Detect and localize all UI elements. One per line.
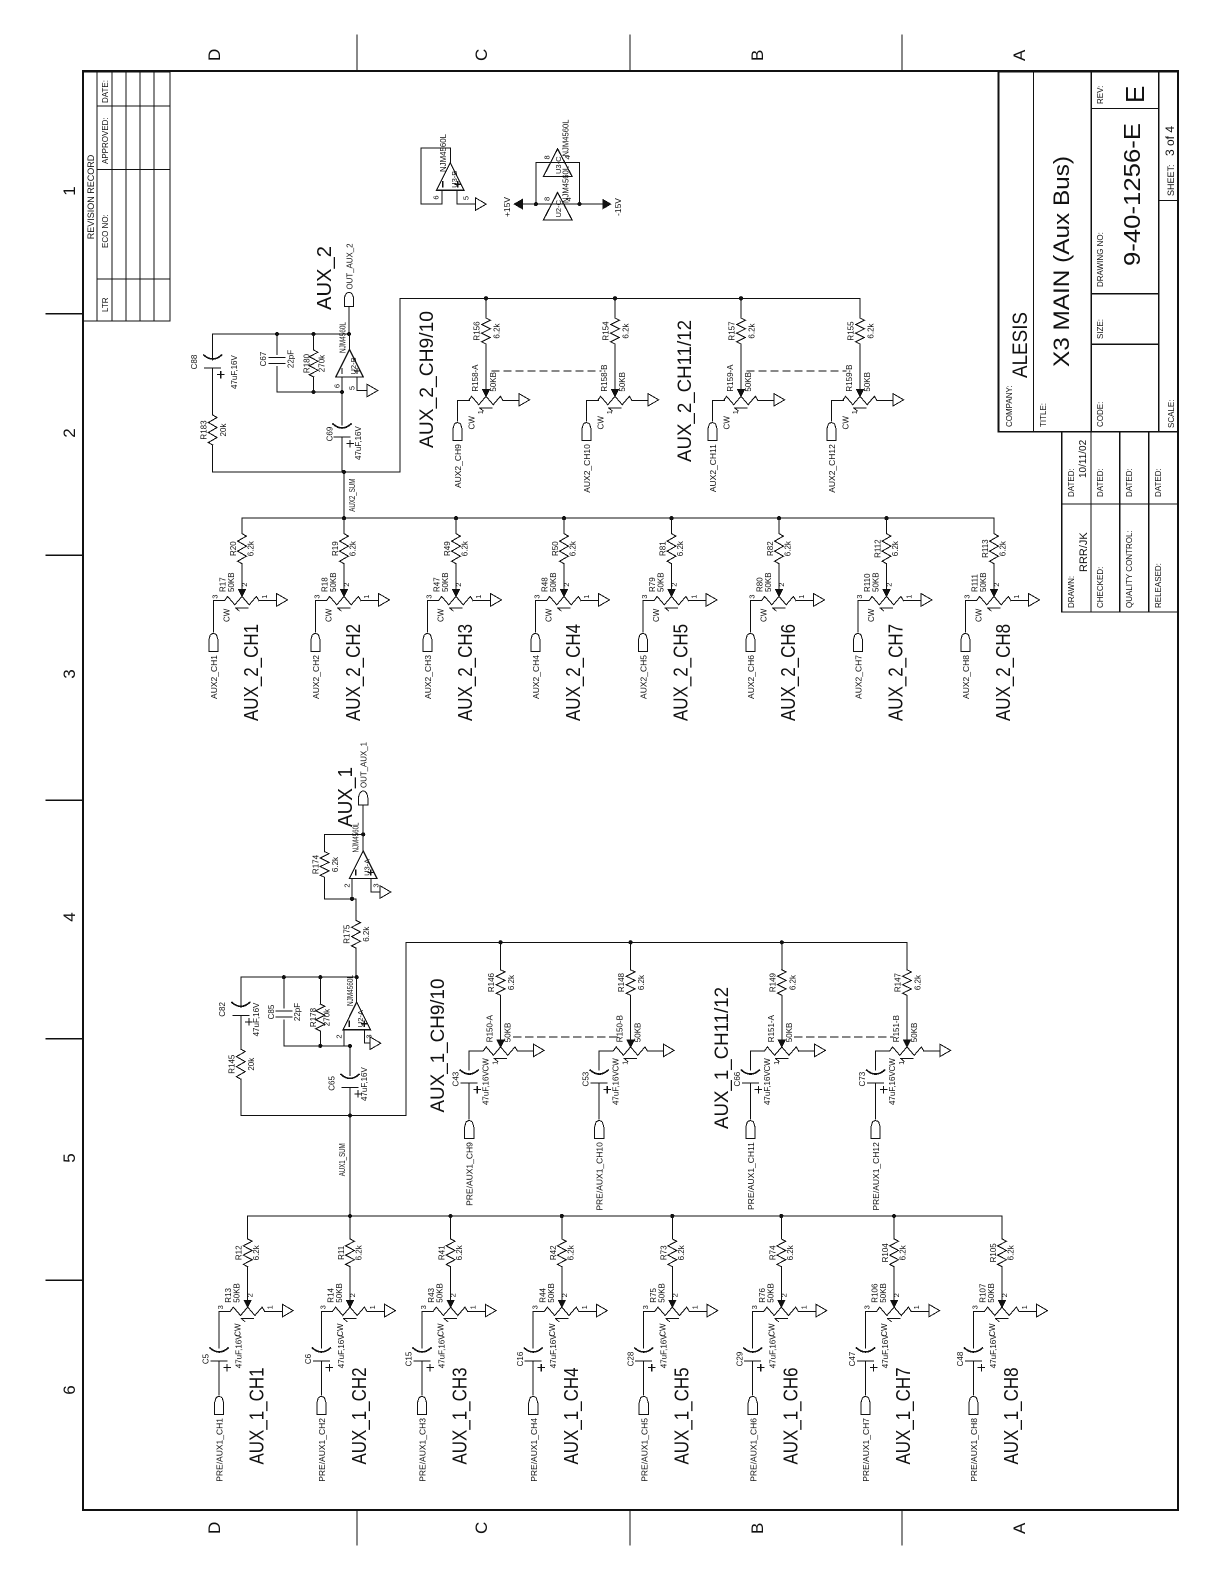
svg-text:50KB: 50KB: [764, 572, 773, 592]
svg-text:R104: R104: [881, 1243, 890, 1263]
svg-text:1: 1: [491, 1061, 500, 1065]
svg-text:3: 3: [216, 1305, 225, 1309]
svg-text:1: 1: [60, 186, 79, 195]
svg-text:PRE/AUX1_CH8: PRE/AUX1_CH8: [969, 1418, 979, 1482]
ground: [814, 594, 825, 607]
svg-text:2: 2: [777, 583, 786, 587]
svg-text:C73: C73: [858, 1071, 867, 1086]
svg-text:AUX_2_CH2: AUX_2_CH2: [343, 624, 365, 721]
wire R13 wiper: [244, 1267, 251, 1308]
ground: [367, 384, 378, 397]
ground: [893, 394, 904, 407]
svg-text:REVISION RECORD: REVISION RECORD: [86, 154, 96, 239]
potentiometer R159-A: [721, 396, 758, 411]
potentiometer R150-B: [611, 1047, 648, 1062]
junction: [347, 332, 351, 336]
wire R158-A wiper: [483, 344, 490, 396]
svg-text:C82: C82: [218, 1002, 227, 1017]
svg-text:50KB: 50KB: [910, 1023, 919, 1043]
svg-text:DATE:: DATE:: [101, 80, 110, 103]
wire pot pin1 to ground: [1011, 600, 1029, 602]
svg-text:R159-B: R159-B: [845, 364, 854, 391]
svg-text:6.2k: 6.2k: [891, 540, 900, 556]
svg-text:PRE/AUX1_CH4: PRE/AUX1_CH4: [529, 1418, 539, 1482]
svg-text:6.2k: 6.2k: [507, 974, 516, 990]
svg-text:2: 2: [885, 583, 894, 587]
wire pot pin3 to terminal: [832, 401, 844, 421]
svg-text:47uF,16V: 47uF,16V: [768, 1334, 777, 1368]
svg-text:DATED:: DATED:: [1125, 468, 1134, 497]
svg-text:AUX_2_CH9/10: AUX_2_CH9/10: [417, 311, 438, 448]
svg-text:1: 1: [605, 410, 614, 414]
junction: [613, 296, 617, 300]
svg-text:R174: R174: [312, 854, 321, 874]
gang dashed link R150: [514, 1036, 617, 1038]
polarity +: [870, 1364, 876, 1370]
svg-text:NJM4560L: NJM4560L: [345, 975, 355, 1006]
wire pot pin3 to C28: [644, 1311, 653, 1348]
resistor R175: [355, 948, 357, 977]
wire output: [356, 977, 358, 1002]
svg-text:50KB: 50KB: [657, 1283, 666, 1303]
capacitor C29: [744, 1348, 762, 1361]
potentiometer R48: [544, 596, 581, 611]
svg-text:C29: C29: [735, 1351, 744, 1366]
junction: [560, 1214, 564, 1218]
svg-text:50KB: 50KB: [329, 572, 338, 592]
junction: [534, 202, 538, 206]
wire pot pin1 to ground: [265, 1310, 283, 1312]
wire feed to R154: [614, 298, 616, 318]
svg-text:10/11/02: 10/11/02: [1078, 439, 1089, 478]
svg-text:SIZE:: SIZE:: [1096, 319, 1105, 339]
wire pot pin3 to terminal: [965, 601, 974, 632]
svg-text:6.2k: 6.2k: [748, 322, 757, 338]
wire PRE/AUX1_CH2 R to bus: [349, 1216, 351, 1239]
wire pot pin1 to ground: [361, 600, 379, 602]
svg-text:47uF,16V: 47uF,16V: [360, 1067, 369, 1101]
svg-text:C85: C85: [267, 1004, 276, 1019]
resistor R41: [446, 1239, 455, 1267]
polarity +: [326, 1364, 332, 1370]
svg-text:50KB: 50KB: [657, 572, 666, 592]
svg-text:R105: R105: [989, 1243, 998, 1263]
ground: [533, 1044, 544, 1057]
svg-text:47uF,16V: 47uF,16V: [659, 1334, 668, 1368]
svg-text:AUX2_CH6: AUX2_CH6: [746, 655, 756, 699]
resistor R50: [560, 534, 569, 564]
svg-text:47uF,16V: 47uF,16V: [989, 1334, 998, 1368]
svg-text:C48: C48: [956, 1351, 965, 1366]
wire R159-B wiper: [857, 344, 864, 396]
svg-text:20k: 20k: [219, 423, 228, 437]
capacitor C5: [210, 1348, 228, 1361]
svg-text:D: D: [205, 49, 224, 61]
terminal PRE/AUX1_CH5: [639, 1397, 648, 1415]
terminal PRE/AUX1_CH4: [529, 1397, 538, 1415]
svg-text:AUX2_CH2: AUX2_CH2: [311, 655, 321, 699]
wire R47 wiper: [453, 564, 460, 597]
svg-text:1: 1: [621, 1061, 630, 1065]
wire pot pin3 to terminal: [750, 601, 759, 632]
ground: [491, 594, 502, 607]
svg-text:2: 2: [246, 1293, 255, 1297]
wire PRE/AUX1_CH5 R to bus: [671, 1216, 673, 1239]
svg-text:1: 1: [799, 1305, 808, 1309]
svg-text:5: 5: [348, 386, 357, 390]
svg-text:AUX_2_CH11/12: AUX_2_CH11/12: [675, 320, 696, 462]
svg-text:C69: C69: [326, 426, 335, 441]
wire PRE/AUX1_CH6 R to bus: [780, 1216, 782, 1239]
wire pot pin1 to ground: [579, 1310, 597, 1312]
svg-text:AUX_1_CH11/12: AUX_1_CH11/12: [712, 987, 733, 1129]
svg-text:2: 2: [449, 1293, 458, 1297]
wire R110 wiper: [883, 564, 890, 597]
svg-text:CODE:: CODE:: [1096, 402, 1105, 427]
svg-text:47uF,16V: 47uF,16V: [549, 1334, 558, 1368]
polarity +: [474, 1086, 480, 1092]
wire output to terminal: [348, 306, 350, 334]
net AUX1 bus: [248, 1215, 1002, 1217]
wire pot pin3 to terminal: [213, 601, 222, 632]
svg-text:3: 3: [533, 595, 542, 599]
wire AUX2_CH8 R to bus: [993, 518, 995, 533]
wire pot pin1 to ground: [924, 1050, 940, 1052]
ground: [1029, 594, 1040, 607]
svg-text:C15: C15: [405, 1351, 414, 1366]
wire pot pin1 to ground: [367, 1310, 385, 1312]
svg-text:CW: CW: [612, 1058, 621, 1072]
net AUX1_SUM: [349, 1116, 351, 1217]
wire C6 to terminal: [320, 1361, 322, 1395]
wire feed to R148: [630, 942, 632, 970]
capacitor C73: [867, 1070, 885, 1083]
capacitor C65: [349, 1046, 351, 1076]
svg-text:RRR/JK: RRR/JK: [1078, 532, 1090, 572]
svg-text:6.2k: 6.2k: [788, 974, 797, 990]
svg-text:2: 2: [454, 583, 463, 587]
capacitor C28: [635, 1348, 653, 1361]
svg-text:R50: R50: [551, 541, 560, 556]
svg-text:6.2k: 6.2k: [786, 1244, 795, 1260]
terminal PRE/AUX1_CH11: [746, 1121, 755, 1139]
terminal PRE/AUX1_CH8: [969, 1397, 978, 1415]
resistor R148: [626, 970, 635, 996]
resistor R154: [611, 318, 620, 344]
potentiometer R47: [436, 596, 473, 611]
svg-text:CW: CW: [652, 608, 661, 622]
svg-text:3: 3: [530, 1305, 539, 1309]
wire pin3 to ground: [371, 878, 380, 892]
wire C29 to terminal: [752, 1361, 754, 1395]
svg-text:47uF,16V: 47uF,16V: [235, 1334, 244, 1368]
ground: [475, 198, 486, 211]
svg-text:50KB: 50KB: [979, 572, 988, 592]
svg-text:NJM4560L: NJM4560L: [561, 119, 571, 156]
ground: [519, 394, 530, 407]
svg-text:1: 1: [362, 595, 371, 599]
svg-text:2: 2: [779, 1293, 788, 1297]
resistor R42: [557, 1239, 566, 1267]
svg-text:6.2k: 6.2k: [867, 322, 876, 338]
capacitor C88: [204, 355, 222, 368]
junction: [282, 975, 286, 979]
power +15V: [514, 199, 522, 208]
svg-text:PRE/AUX1_CH7: PRE/AUX1_CH7: [861, 1418, 871, 1482]
wire pot pin1 to ground: [503, 400, 519, 402]
svg-text:3: 3: [640, 595, 649, 599]
svg-text:R154: R154: [602, 321, 611, 341]
wire AUX2_CH1 R to bus: [241, 518, 243, 533]
terminal AUX2_CH7: [853, 634, 862, 652]
svg-text:CW: CW: [888, 1058, 897, 1072]
svg-text:NJM4560L: NJM4560L: [338, 322, 348, 353]
potentiometer R13: [228, 1307, 265, 1322]
svg-text:AUX2_CH4: AUX2_CH4: [531, 655, 541, 699]
svg-text:3: 3: [750, 1305, 759, 1309]
capacitor C15: [413, 1348, 431, 1361]
svg-text:6.2k: 6.2k: [349, 540, 358, 556]
svg-text:C: C: [472, 1522, 491, 1534]
wire output: [349, 334, 351, 350]
wire +15V/-15V rail: [522, 203, 604, 205]
resistor R104: [890, 1239, 899, 1267]
svg-text:1: 1: [1020, 1305, 1029, 1309]
svg-text:CW: CW: [437, 608, 446, 622]
net AUX2 pre-feed: [400, 297, 860, 299]
wire pot pin1 to ground: [877, 400, 893, 402]
svg-text:C88: C88: [190, 354, 199, 369]
wire PRE/AUX1_CH1 R to bus: [247, 1216, 249, 1239]
svg-text:AUX_1_CH8: AUX_1_CH8: [1001, 1368, 1023, 1465]
wire power top link: [535, 163, 537, 204]
potentiometer R75: [652, 1307, 689, 1322]
wire to CH9-12 feed: [405, 942, 407, 1115]
svg-text:CHECKED:: CHECKED:: [1096, 567, 1105, 608]
wire C73 to terminal: [875, 1083, 877, 1119]
resistor R49: [452, 534, 461, 564]
svg-text:LTR: LTR: [101, 297, 110, 312]
ground: [929, 1304, 940, 1317]
svg-text:4: 4: [563, 155, 572, 159]
svg-text:AUX2_SUM: AUX2_SUM: [347, 479, 357, 512]
svg-text:6.2k: 6.2k: [252, 1244, 261, 1260]
wire C43 to terminal: [468, 1083, 470, 1119]
wire feed to R146: [500, 942, 502, 970]
ground: [380, 886, 391, 899]
wire R44 wiper: [558, 1267, 565, 1308]
capacitor C43: [460, 1070, 478, 1083]
svg-text:AUX_2_CH5: AUX_2_CH5: [671, 624, 693, 721]
potentiometer R76: [761, 1307, 798, 1322]
op-amp U3-A: [349, 851, 377, 879]
terminal OUT_AUX_2: [344, 292, 353, 306]
net AUX2 bus: [242, 517, 994, 519]
svg-text:CW: CW: [482, 1058, 491, 1072]
svg-text:6.2k: 6.2k: [1007, 1244, 1016, 1260]
svg-text:50KB: 50KB: [987, 1283, 996, 1303]
svg-text:6.2k: 6.2k: [362, 926, 371, 942]
svg-text:50KB: 50KB: [872, 572, 881, 592]
svg-text:1: 1: [476, 410, 485, 414]
wire pin3 to ground: [365, 1030, 371, 1044]
svg-text:1: 1: [474, 595, 483, 599]
wire PRE/AUX1_CH3 R to bus: [450, 1216, 452, 1239]
potentiometer R111: [974, 596, 1011, 611]
svg-text:2: 2: [335, 1034, 344, 1038]
svg-text:50KB: 50KB: [634, 1023, 643, 1043]
resistor R157: [737, 318, 746, 344]
wire feed to R147: [906, 942, 908, 970]
svg-text:SHEET:: SHEET:: [1166, 164, 1176, 196]
wire pot pin3 to C53: [599, 1051, 610, 1070]
wire C15 to terminal: [421, 1361, 423, 1395]
svg-text:X3 MAIN (Aux Bus): X3 MAIN (Aux Bus): [1049, 156, 1074, 367]
svg-text:R112: R112: [874, 539, 883, 558]
svg-text:2: 2: [562, 583, 571, 587]
svg-text:3: 3: [372, 883, 381, 887]
wire AUX2_CH6 R to bus: [778, 518, 780, 533]
resistor R149: [777, 970, 786, 996]
resistor R19: [340, 534, 349, 564]
svg-text:CW: CW: [597, 416, 606, 430]
wire pot pin3 to C43: [469, 1051, 480, 1070]
svg-text:270k: 270k: [323, 1008, 332, 1026]
svg-text:50KB: 50KB: [441, 572, 450, 592]
resistor R183: [208, 415, 217, 445]
svg-text:R82: R82: [766, 541, 775, 556]
svg-text:1: 1: [690, 595, 699, 599]
op-amp U2-B: [336, 350, 364, 378]
ground: [485, 1304, 496, 1317]
wire pin5: [457, 190, 476, 204]
wire R48 wiper: [561, 564, 568, 597]
polarity +: [758, 1364, 764, 1370]
svg-text:1: 1: [897, 1061, 906, 1065]
terminal OUT_AUX_1: [359, 791, 368, 805]
wire R159-A wiper: [738, 344, 745, 396]
resistor R145: [236, 1049, 245, 1079]
svg-text:AUX_1_CH4: AUX_1_CH4: [561, 1368, 583, 1465]
potentiometer R159-B: [840, 396, 877, 411]
svg-text:C53: C53: [582, 1071, 591, 1086]
svg-text:PRE/AUX1_CH1: PRE/AUX1_CH1: [215, 1418, 225, 1482]
svg-text:1: 1: [582, 595, 591, 599]
svg-text:OUT_AUX_2: OUT_AUX_2: [345, 243, 355, 289]
wire pot pin3 to terminal: [643, 601, 652, 632]
polarity +: [755, 1086, 761, 1092]
junction: [454, 516, 458, 520]
polarity +: [649, 1364, 655, 1370]
ground: [597, 1304, 608, 1317]
svg-text:AUX2_CH5: AUX2_CH5: [639, 655, 649, 699]
svg-text:AUX_1_CH7: AUX_1_CH7: [893, 1368, 915, 1465]
resistor R11: [346, 1239, 355, 1267]
svg-text:PRE/AUX1_CH5: PRE/AUX1_CH5: [639, 1418, 649, 1482]
svg-text:3: 3: [963, 595, 972, 599]
ground: [707, 1304, 718, 1317]
svg-text:1: 1: [690, 1305, 699, 1309]
terminal AUX2_CH10: [582, 423, 591, 441]
svg-text:1: 1: [580, 1305, 589, 1309]
svg-text:R113: R113: [981, 539, 990, 558]
svg-text:50KB: 50KB: [744, 372, 753, 392]
wire pot pin1 to ground: [581, 600, 599, 602]
svg-text:PRE/AUX1_CH11: PRE/AUX1_CH11: [746, 1142, 756, 1210]
svg-text:3: 3: [425, 595, 434, 599]
capacitor C66: [741, 1070, 759, 1083]
svg-text:R146: R146: [487, 972, 496, 992]
wire R151-A wiper: [778, 995, 785, 1047]
svg-text:6.2k: 6.2k: [637, 974, 646, 990]
wire pot pin1 to ground: [689, 1310, 707, 1312]
wire PRE/AUX1_CH7 R to bus: [893, 1216, 895, 1239]
wire pot pin1 to ground: [468, 1310, 486, 1312]
op-amp U3-C power: [543, 149, 572, 177]
terminal AUX2_CH8: [961, 634, 970, 652]
svg-text:AUX2_CH11: AUX2_CH11: [708, 444, 718, 492]
wire pot pin1 to ground: [796, 600, 814, 602]
svg-text:1: 1: [850, 410, 859, 414]
svg-text:6.2k: 6.2k: [493, 322, 502, 338]
svg-text:6.2k: 6.2k: [677, 1244, 686, 1260]
svg-text:4: 4: [564, 197, 573, 201]
terminal PRE/AUX1_CH1: [215, 1397, 224, 1415]
svg-text:47uF,16V: 47uF,16V: [881, 1334, 890, 1368]
wire PRE/AUX1_CH8 R to bus: [1001, 1216, 1003, 1239]
terminal AUX2_CH5: [638, 634, 647, 652]
svg-text:B: B: [748, 1523, 767, 1534]
wire pot pin1 to ground: [798, 1310, 816, 1312]
svg-text:6.2k: 6.2k: [622, 322, 631, 338]
junction: [629, 940, 633, 944]
svg-text:2: 2: [670, 1293, 679, 1297]
junction: [779, 1214, 783, 1218]
svg-text:U3-A: U3-A: [363, 859, 372, 876]
junction: [348, 1214, 352, 1218]
svg-text:COMPANY:: COMPANY:: [1005, 385, 1014, 427]
junction: [780, 940, 784, 944]
capacitor C82: [232, 1002, 250, 1015]
potentiometer R17: [222, 596, 259, 611]
svg-text:AUX2_CH3: AUX2_CH3: [423, 655, 433, 699]
svg-text:3: 3: [971, 1305, 980, 1309]
svg-text:CW: CW: [760, 608, 769, 622]
junction: [892, 1214, 896, 1218]
svg-text:6.2k: 6.2k: [914, 974, 923, 990]
junction: [499, 940, 503, 944]
svg-text:R150-A: R150-A: [486, 1014, 495, 1042]
ground: [816, 1304, 827, 1317]
svg-text:47uF,16V: 47uF,16V: [438, 1334, 447, 1368]
op-amp U3-B: [437, 163, 465, 191]
svg-text:C47: C47: [848, 1351, 857, 1366]
junction: [342, 516, 346, 520]
wire sum node: [213, 471, 400, 473]
svg-text:50KB: 50KB: [436, 1283, 445, 1303]
capacitor C69: [341, 392, 343, 425]
wire R111 wiper: [991, 564, 998, 597]
wire R150-B wiper: [627, 995, 634, 1047]
svg-text:50KB: 50KB: [547, 1283, 556, 1303]
svg-text:PRE/AUX1_CH6: PRE/AUX1_CH6: [748, 1418, 758, 1482]
wire feedback U3-A: [325, 833, 364, 835]
svg-text:R145: R145: [228, 1054, 237, 1074]
wire pot pin3 to C6: [321, 1311, 330, 1348]
svg-text:22pF: 22pF: [293, 1003, 302, 1021]
svg-text:REV:: REV:: [1096, 86, 1105, 104]
svg-text:1: 1: [797, 595, 806, 599]
